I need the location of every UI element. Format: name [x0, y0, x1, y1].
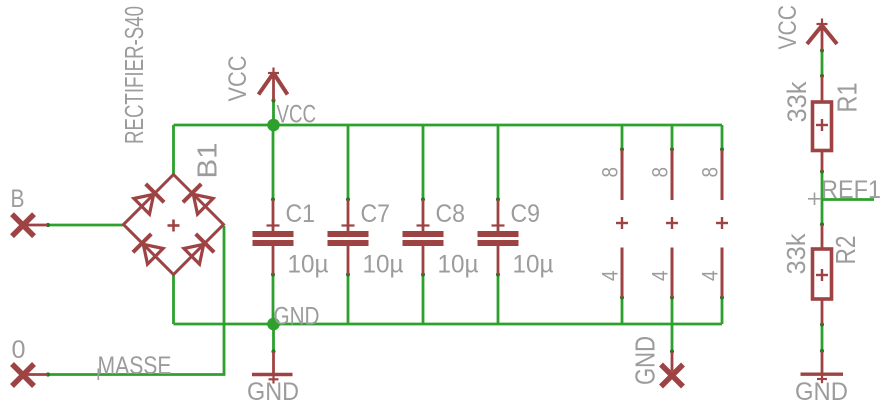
- wire GND bus to GND symbol: [271, 324, 275, 354]
- value 10u for C7: [363, 251, 404, 279]
- svg-text:R1: R1: [832, 83, 863, 113]
- svg-text:C8: C8: [436, 200, 466, 228]
- wire REF1 stub: [822, 198, 874, 201]
- svg-text:B1: B1: [192, 143, 223, 179]
- resistor R1 body: [813, 102, 832, 151]
- power symbol VCC right (arrow): [807, 19, 837, 51]
- value 10u for C9: [513, 251, 554, 279]
- wire MASSE horizontal: [46, 372, 226, 376]
- label R1: [832, 83, 863, 113]
- wire pin 4 to GND bus at x=722: [720, 295, 724, 324]
- capacitor C8: [403, 200, 444, 275]
- value 10u for C1: [288, 251, 329, 279]
- svg-text:VCC: VCC: [277, 101, 317, 129]
- label GND vertical: [630, 336, 661, 385]
- label GND below right symbol: [795, 378, 848, 406]
- power symbol GND right: [801, 351, 844, 383]
- svg-text:VCC: VCC: [774, 5, 802, 50]
- svg-text:33k: 33k: [781, 233, 811, 275]
- net label VCC: [277, 101, 317, 129]
- pin 8 (VCC) column 1: [621, 150, 624, 201]
- pin number 4 column 2: [648, 271, 673, 282]
- svg-text:4: 4: [648, 271, 673, 282]
- wire capacitor to GND bus at x=273: [271, 272, 275, 324]
- svg-text:RECTIFIER-S40: RECTIFIER-S40: [121, 6, 149, 144]
- diode B1 bottom-left (V- to left AC): [133, 234, 163, 264]
- origin cross B1 center: [168, 220, 180, 232]
- pin 8 (VCC) column 2: [671, 150, 674, 201]
- wire VCC arrow to R1: [820, 48, 824, 78]
- resistor R2 pins: [821, 225, 824, 325]
- diode B1 top-right (right AC to V+): [183, 184, 213, 214]
- junction VCC node: [267, 119, 280, 132]
- pin 4 (GND) column 3: [721, 248, 724, 298]
- wire VCC bus to capacitor at x=423: [421, 125, 425, 202]
- net label REF1: [821, 176, 881, 204]
- svg-text:GND: GND: [274, 303, 320, 331]
- svg-text:8: 8: [698, 167, 723, 178]
- svg-text:GND: GND: [247, 378, 299, 406]
- label RECTIFIER-S40: [121, 6, 149, 144]
- pin B red lead: [23, 224, 48, 227]
- wire VCC bus to pin 8 at x=722: [720, 125, 724, 152]
- wire bridge right corner down to MASSE: [223, 226, 226, 375]
- capacitor C1: [253, 200, 294, 275]
- svg-text:0: 0: [12, 336, 26, 364]
- svg-text:B: B: [11, 185, 25, 213]
- svg-text:GND: GND: [795, 378, 848, 406]
- wire capacitor to GND bus at x=423: [421, 272, 425, 324]
- value 33k for R1: [782, 81, 812, 122]
- wire pin 4 to GND bus at x=622: [620, 295, 624, 324]
- wire VCC bus to capacitor at x=498: [496, 125, 500, 202]
- pin B x-mark: [12, 214, 34, 236]
- pin number 8 column 3: [698, 167, 723, 178]
- svg-text:8: 8: [648, 167, 673, 178]
- label B1: [192, 143, 223, 179]
- resistor R2 body: [813, 249, 832, 299]
- svg-text:C1: C1: [286, 200, 316, 228]
- origin cross IC column 2: [666, 217, 678, 229]
- svg-text:10µ: 10µ: [438, 251, 479, 279]
- pin 4 (GND) column 1: [621, 248, 624, 298]
- capacitor C7: [328, 200, 369, 275]
- wire bridge top to VCC bus: [172, 125, 175, 176]
- wire capacitor to GND bus at x=498: [496, 272, 500, 324]
- pin number 4 column 1: [598, 271, 623, 282]
- label GND below left symbol: [247, 378, 299, 406]
- power symbol GND left: [252, 352, 293, 384]
- wire R1 to REF1 node: [820, 169, 824, 226]
- svg-text:10µ: 10µ: [363, 251, 404, 279]
- wire VCC bus to pin 8 at x=622: [620, 125, 624, 152]
- origin cross IC column 3: [716, 217, 728, 229]
- label C1: [286, 200, 316, 228]
- power symbol VCC (arrow): [259, 68, 288, 101]
- resistor R1 pins: [821, 76, 824, 172]
- svg-text:4: 4: [598, 271, 623, 282]
- diode B1 bottom-right (V- to right AC): [184, 234, 214, 264]
- wire GND bottom bus: [174, 323, 723, 326]
- origin cross IC column 1: [616, 217, 628, 229]
- wire VCC top bus: [174, 124, 723, 127]
- svg-text:10µ: 10µ: [513, 251, 554, 279]
- pin number 8 column 1: [598, 167, 623, 178]
- origin cross R2: [816, 269, 828, 281]
- label C7: [361, 200, 391, 228]
- label MASSE: [98, 352, 172, 380]
- svg-text:GND: GND: [630, 336, 661, 385]
- pin 0 x-mark: [12, 364, 34, 386]
- origin cross REF1 label: [808, 193, 821, 206]
- origin cross R1: [816, 119, 828, 131]
- wire VCC bus to capacitor at x=348: [346, 125, 350, 202]
- label 0: [12, 336, 26, 364]
- wire capacitor to GND bus at x=348: [346, 272, 350, 324]
- junction GND node: [267, 318, 280, 331]
- wire R2 to GND symbol: [820, 322, 824, 353]
- label VCC right vertical: [774, 5, 802, 50]
- pin GND red lead: [671, 352, 674, 372]
- pin 0 red lead: [23, 373, 48, 376]
- net label GND on bus: [274, 303, 320, 331]
- label VCC vertical: [224, 56, 252, 102]
- svg-text:10µ: 10µ: [288, 251, 329, 279]
- svg-text:VCC: VCC: [224, 56, 252, 102]
- label B: [11, 185, 25, 213]
- wire VCC bus to capacitor at x=273: [271, 125, 275, 202]
- svg-text:4: 4: [698, 271, 723, 282]
- label R2: [830, 236, 861, 265]
- wire GND bus to GND flag: [670, 324, 674, 354]
- wire VCC bus to pin 8 at x=672: [670, 125, 674, 152]
- value 33k for R2: [781, 233, 811, 275]
- svg-text:33k: 33k: [782, 81, 812, 122]
- capacitor C9: [478, 200, 519, 275]
- origin cross MASSE label: [97, 369, 99, 381]
- svg-text:C9: C9: [511, 200, 541, 228]
- wire B to bridge left corner: [46, 223, 124, 227]
- svg-text:REF1: REF1: [821, 176, 881, 204]
- pin 4 (GND) column 2: [671, 248, 674, 298]
- wire bridge bottom to GND bus: [172, 274, 175, 325]
- pin number 8 column 2: [648, 167, 673, 178]
- pin number 4 column 3: [698, 271, 723, 282]
- wire VCC symbol to bus left: [271, 98, 275, 125]
- label C8: [436, 200, 466, 228]
- diode B1 top-left (left AC to V+): [134, 184, 164, 214]
- svg-text:MASSE: MASSE: [98, 352, 172, 380]
- svg-text:R2: R2: [830, 236, 861, 265]
- svg-text:C7: C7: [361, 200, 391, 228]
- rectifier B1 diamond body: [124, 175, 224, 275]
- value 10u for C8: [438, 251, 479, 279]
- pin GND x-mark: [661, 365, 683, 387]
- svg-text:8: 8: [598, 167, 623, 178]
- wire pin 4 to GND bus at x=672: [670, 295, 674, 324]
- pin 8 (VCC) column 3: [721, 150, 724, 201]
- label C9: [511, 200, 541, 228]
